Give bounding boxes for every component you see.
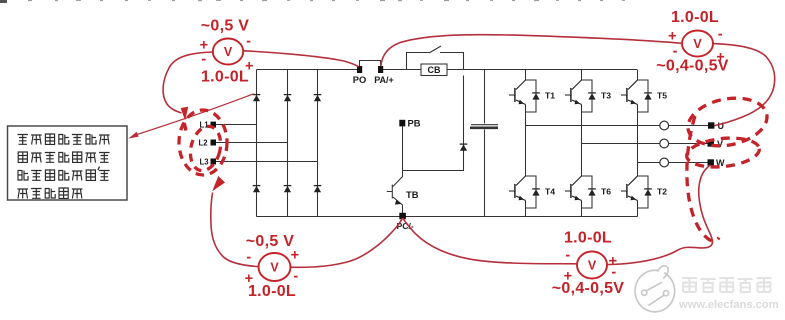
svg-text:V: V: [224, 45, 233, 59]
svg-text:~0,4-0,5V: ~0,4-0,5V: [552, 280, 625, 297]
svg-text:-: -: [246, 250, 251, 266]
svg-text:+: +: [668, 29, 677, 45]
svg-text:-: -: [718, 27, 723, 43]
svg-text:-: -: [611, 265, 616, 281]
svg-text:PA/+: PA/+: [374, 75, 394, 85]
svg-text:-: -: [246, 34, 251, 50]
svg-text:L2: L2: [199, 139, 209, 148]
svg-text:T1: T1: [545, 91, 555, 101]
svg-text:+: +: [245, 59, 254, 75]
svg-text:TB: TB: [406, 189, 419, 200]
svg-text:+: +: [245, 271, 254, 287]
svg-text:T4: T4: [545, 187, 555, 197]
svg-text:www.elecfans.com: www.elecfans.com: [678, 299, 779, 311]
svg-text:1.0-0L: 1.0-0L: [671, 9, 719, 26]
svg-text:1.0-0L: 1.0-0L: [564, 229, 612, 246]
svg-text:1.0-0L: 1.0-0L: [248, 283, 296, 300]
svg-text:PB: PB: [408, 118, 421, 129]
svg-text:-: -: [673, 44, 678, 60]
svg-text:-: -: [201, 52, 206, 68]
svg-text:L3: L3: [200, 158, 210, 167]
svg-text:T3: T3: [601, 91, 611, 101]
svg-text:V: V: [693, 37, 702, 51]
svg-text:V: V: [270, 261, 279, 275]
svg-text:-: -: [293, 269, 298, 285]
svg-text:~0,5 V: ~0,5 V: [246, 233, 295, 250]
svg-text:+: +: [716, 50, 725, 66]
svg-text:+: +: [564, 269, 573, 285]
svg-text:V: V: [588, 259, 597, 273]
svg-text:T2: T2: [657, 187, 667, 197]
svg-text:1.0-0L: 1.0-0L: [201, 69, 249, 86]
svg-text:+: +: [291, 248, 300, 264]
svg-text:-: -: [565, 248, 570, 264]
svg-text:T6: T6: [601, 187, 611, 197]
svg-text:U: U: [718, 121, 725, 131]
svg-text:PO: PO: [353, 74, 367, 85]
svg-text:~0,5 V: ~0,5 V: [201, 18, 250, 35]
svg-text:V: V: [717, 139, 723, 149]
svg-text:CB: CB: [428, 65, 441, 75]
svg-text:T5: T5: [657, 91, 667, 101]
